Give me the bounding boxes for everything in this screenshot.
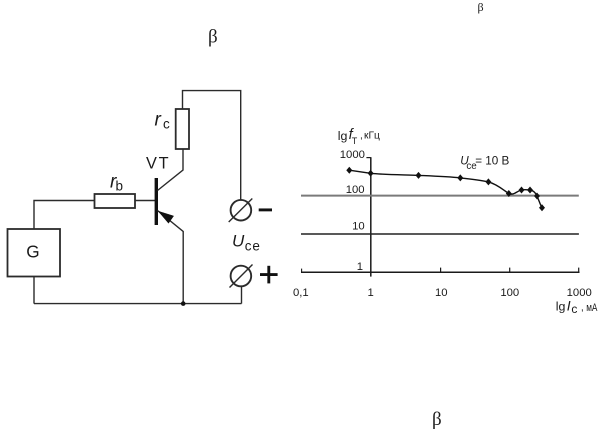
data point 10 xyxy=(539,204,545,211)
data point 5 xyxy=(485,178,491,185)
data point 8 xyxy=(527,187,533,194)
svg-text:b: b xyxy=(116,179,124,194)
data point 4 xyxy=(457,174,463,181)
transistor VT base bar xyxy=(155,178,158,225)
svg-text:1: 1 xyxy=(357,261,363,273)
svg-text:ce: ce xyxy=(245,239,261,254)
svg-text:0,1: 0,1 xyxy=(293,287,309,299)
gridline 100 level xyxy=(301,195,579,197)
plus sign xyxy=(260,273,278,276)
transistor VT emitter arrow xyxy=(158,211,173,223)
wire: Rc top loop to meter PV1 xyxy=(183,91,241,200)
svg-text:кГц: кГц xyxy=(364,131,380,142)
svg-text:= 10 В: = 10 В xyxy=(475,155,509,168)
svg-text:G: G xyxy=(26,242,39,262)
svg-text:I: I xyxy=(567,298,571,314)
svg-text:Т: Т xyxy=(352,136,358,146)
x tick 1000 xyxy=(578,268,580,273)
svg-text:lg: lg xyxy=(338,129,348,143)
gridline 10 level xyxy=(301,233,579,235)
svg-text:VT: VT xyxy=(146,154,170,172)
wire: Rb to transistor base xyxy=(135,200,155,202)
svg-text:100: 100 xyxy=(500,287,519,299)
curve f_T vs I_c xyxy=(349,170,542,208)
svg-text:10: 10 xyxy=(352,221,365,233)
generator G xyxy=(8,229,61,277)
svg-text:β: β xyxy=(432,409,442,429)
x tick 100 xyxy=(509,268,511,273)
minus sign xyxy=(259,208,272,211)
data point 2 xyxy=(368,170,374,177)
graph y-axis xyxy=(370,157,372,276)
svg-text:,: , xyxy=(581,301,584,313)
svg-text:1: 1 xyxy=(367,287,373,299)
data point 7 xyxy=(519,187,525,194)
svg-text:10: 10 xyxy=(435,287,448,299)
wire: bottom rail xyxy=(34,303,242,305)
meter PV1 (minus terminal) xyxy=(231,200,252,221)
data point 6 xyxy=(506,190,512,197)
resistor Rc xyxy=(176,109,189,149)
svg-text:β: β xyxy=(478,0,484,14)
wire: G top to resistor Rb xyxy=(34,201,95,230)
meter PV2 (plus terminal) xyxy=(231,266,252,287)
transistor VT emitter line xyxy=(158,211,184,304)
data point 9 xyxy=(534,193,540,200)
x-axis left tick (0.1) xyxy=(301,269,303,273)
graph x-axis xyxy=(301,271,580,273)
wire: meter PV2 to bottom rail xyxy=(241,286,243,303)
data point 1 xyxy=(346,167,352,174)
svg-text:lg: lg xyxy=(556,300,566,314)
svg-text:,: , xyxy=(360,131,363,142)
svg-text:c: c xyxy=(163,117,170,132)
y-axis top tick (1000 level) xyxy=(366,157,370,159)
svg-text:r: r xyxy=(155,110,162,131)
svg-text:100: 100 xyxy=(346,184,365,196)
resistor Rb xyxy=(95,194,136,208)
svg-text:β: β xyxy=(208,27,218,48)
svg-text:с: с xyxy=(571,302,577,316)
data point 3 xyxy=(416,172,422,179)
transistor VT collector line xyxy=(158,149,184,191)
x tick 10 xyxy=(440,268,442,273)
svg-text:мА: мА xyxy=(586,302,598,314)
junction dot emitter/rail xyxy=(181,301,186,306)
wire: G bottom to rail xyxy=(33,276,35,303)
svg-text:1000: 1000 xyxy=(340,149,365,161)
svg-text:U: U xyxy=(232,231,245,250)
